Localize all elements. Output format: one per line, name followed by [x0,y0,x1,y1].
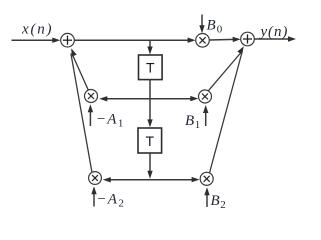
wire M0 to S2 [209,38,234,41]
coefficient arrow B2 [206,193,208,207]
feedforward wire MB2 to S2 [210,51,243,173]
delay T1 [139,55,163,80]
multiplier MB1 [199,90,212,103]
multiplier MB2 [200,172,213,185]
svg-text:T: T [146,133,155,149]
svg-text:−A2: −A2 [97,192,126,210]
coefficient arrow B1 [205,111,207,126]
wire output [254,38,289,40]
coefficient arrow B0 [201,15,203,28]
feedback wire MA2 to S1 [71,54,92,173]
svg-text:x(n): x(n) [21,22,53,38]
wire mid tap [104,98,193,100]
summer S2 [241,32,255,46]
svg-text:B1: B1 [185,113,200,131]
multiplier MA2 [89,172,102,185]
wire bottom tap [106,179,194,181]
delay T2 [138,128,162,153]
wire S1 to M0 [74,39,189,41]
wire junction down to T1 [149,40,151,48]
svg-text:−A1: −A1 [96,112,125,130]
feedback wire MA1 to S1 [73,56,89,91]
wire T2 down [149,153,151,172]
svg-text:T: T [146,60,155,76]
multiplier MA1 [85,90,98,103]
summer S1 [61,33,75,47]
multiplier M0 [196,34,210,48]
svg-text:y(n): y(n) [259,24,289,40]
wire T1 to T2 [149,80,151,121]
coefficient arrow A1 [89,110,91,126]
svg-text:B2: B2 [211,193,226,211]
svg-text:B0: B0 [207,18,223,36]
coefficient arrow A2 [93,192,95,207]
feedforward wire MB1 to S2 [208,53,241,91]
wire input [12,39,54,41]
